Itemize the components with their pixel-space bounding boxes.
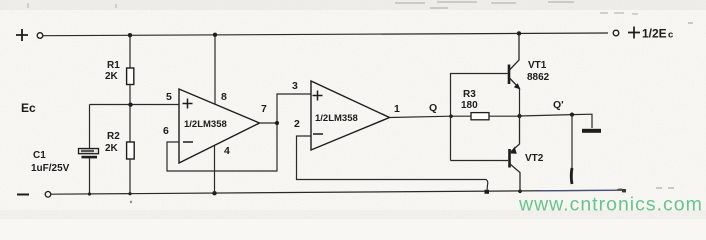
svg-text:3: 3 (292, 80, 298, 92)
rail end mark (616, 189, 623, 190)
svg-text:VT1: VT1 (528, 60, 547, 71)
+1/2Ec output terminal (top right) (613, 27, 673, 41)
junction: Q' node (570, 113, 574, 117)
junction: R2 bottom on rail (128, 192, 131, 195)
transistor VT1 (509, 33, 550, 116)
svg-text:R2: R2 (107, 131, 120, 142)
junction: U1 output node (275, 121, 279, 125)
svg-text:2K: 2K (105, 71, 119, 82)
junction: op-amp2 pin2 return on rail (485, 190, 490, 194)
U1 output wire pin 7 (260, 122, 278, 124)
resistor R1 (105, 35, 134, 105)
svg-text:VT2: VT2 (525, 153, 544, 164)
capacitor C1 (31, 105, 99, 195)
junction: R1/R2/C1 node on pin5 wire (128, 103, 132, 107)
svg-text:5: 5 (166, 91, 172, 103)
svg-text:Q': Q' (553, 99, 564, 111)
minus terminal of Ec supply (bottom left) (17, 192, 51, 198)
svg-text:1uF/25V: 1uF/25V (31, 163, 70, 174)
transistor VT2 (510, 116, 544, 192)
svg-text:R3: R3 (463, 89, 476, 100)
node A wire (divider mid-node to pin 5) (90, 104, 180, 106)
scan smudges top (395, 2, 574, 8)
junction node: VT1 collector on rail (517, 31, 521, 35)
junction: node Q / base branch (449, 114, 453, 118)
pin 4 wire (214, 146, 216, 193)
svg-text:www.cntronics.com: www.cntronics.com (518, 194, 703, 216)
svg-text:1: 1 (394, 103, 400, 115)
pin 6 feedback loop wire of U1 (167, 94, 311, 171)
svg-text:1/2LM358: 1/2LM358 (315, 113, 358, 124)
bottom ground rail wire (51, 190, 622, 194)
svg-text:6: 6 (163, 125, 169, 137)
svg-text:Ec: Ec (21, 101, 36, 115)
pin 8 wire (214, 35, 216, 104)
junction: VT2 collector on rail (518, 190, 522, 194)
U2 output wire pin 1 to node Q (390, 116, 472, 117)
top supply rail wire (43, 33, 608, 36)
base branch wire (node Q up/down to VT1 and VT2 bases) (451, 74, 509, 161)
faint scan marks right side (656, 23, 693, 188)
svg-text:180: 180 (461, 100, 478, 111)
resistor R2 (105, 105, 134, 194)
resistor R3 (461, 89, 520, 120)
junction: op-amp pin 4 on rail (212, 191, 216, 195)
op-amp U2 (1/2 LM358) (311, 81, 390, 150)
junction: emitters node on Q' line (517, 114, 521, 118)
op-amp U1 (1/2 LM358) (179, 89, 260, 163)
svg-text:2K: 2K (105, 143, 119, 154)
svg-text:8862: 8862 (527, 72, 550, 83)
svg-text:c: c (668, 30, 673, 41)
svg-text:7: 7 (261, 103, 267, 115)
svg-text:4: 4 (224, 145, 230, 157)
junction node: pin 8 on rail (213, 33, 217, 37)
svg-text:2: 2 (294, 118, 300, 130)
rail tinted segment (watermark overlap) (540, 189, 616, 192)
junction: C1 bottom on rail (88, 192, 91, 195)
svg-text:1/2LM358: 1/2LM358 (184, 119, 227, 130)
svg-text:R1: R1 (107, 60, 120, 71)
Q' output wire (520, 114, 593, 128)
svg-text:8: 8 (221, 91, 227, 103)
junction node: R1 top on rail (128, 33, 132, 37)
ground symbol (582, 129, 601, 133)
svg-text:Q: Q (429, 102, 437, 114)
svg-text:C1: C1 (33, 150, 46, 161)
pin 2 input wire and feedback return of U2 (297, 136, 488, 191)
svg-text:1/2E: 1/2E (642, 27, 667, 41)
plus terminal of Ec supply (top left) (16, 29, 43, 41)
Q' drop wire to rail (pen stroke) (570, 115, 573, 184)
